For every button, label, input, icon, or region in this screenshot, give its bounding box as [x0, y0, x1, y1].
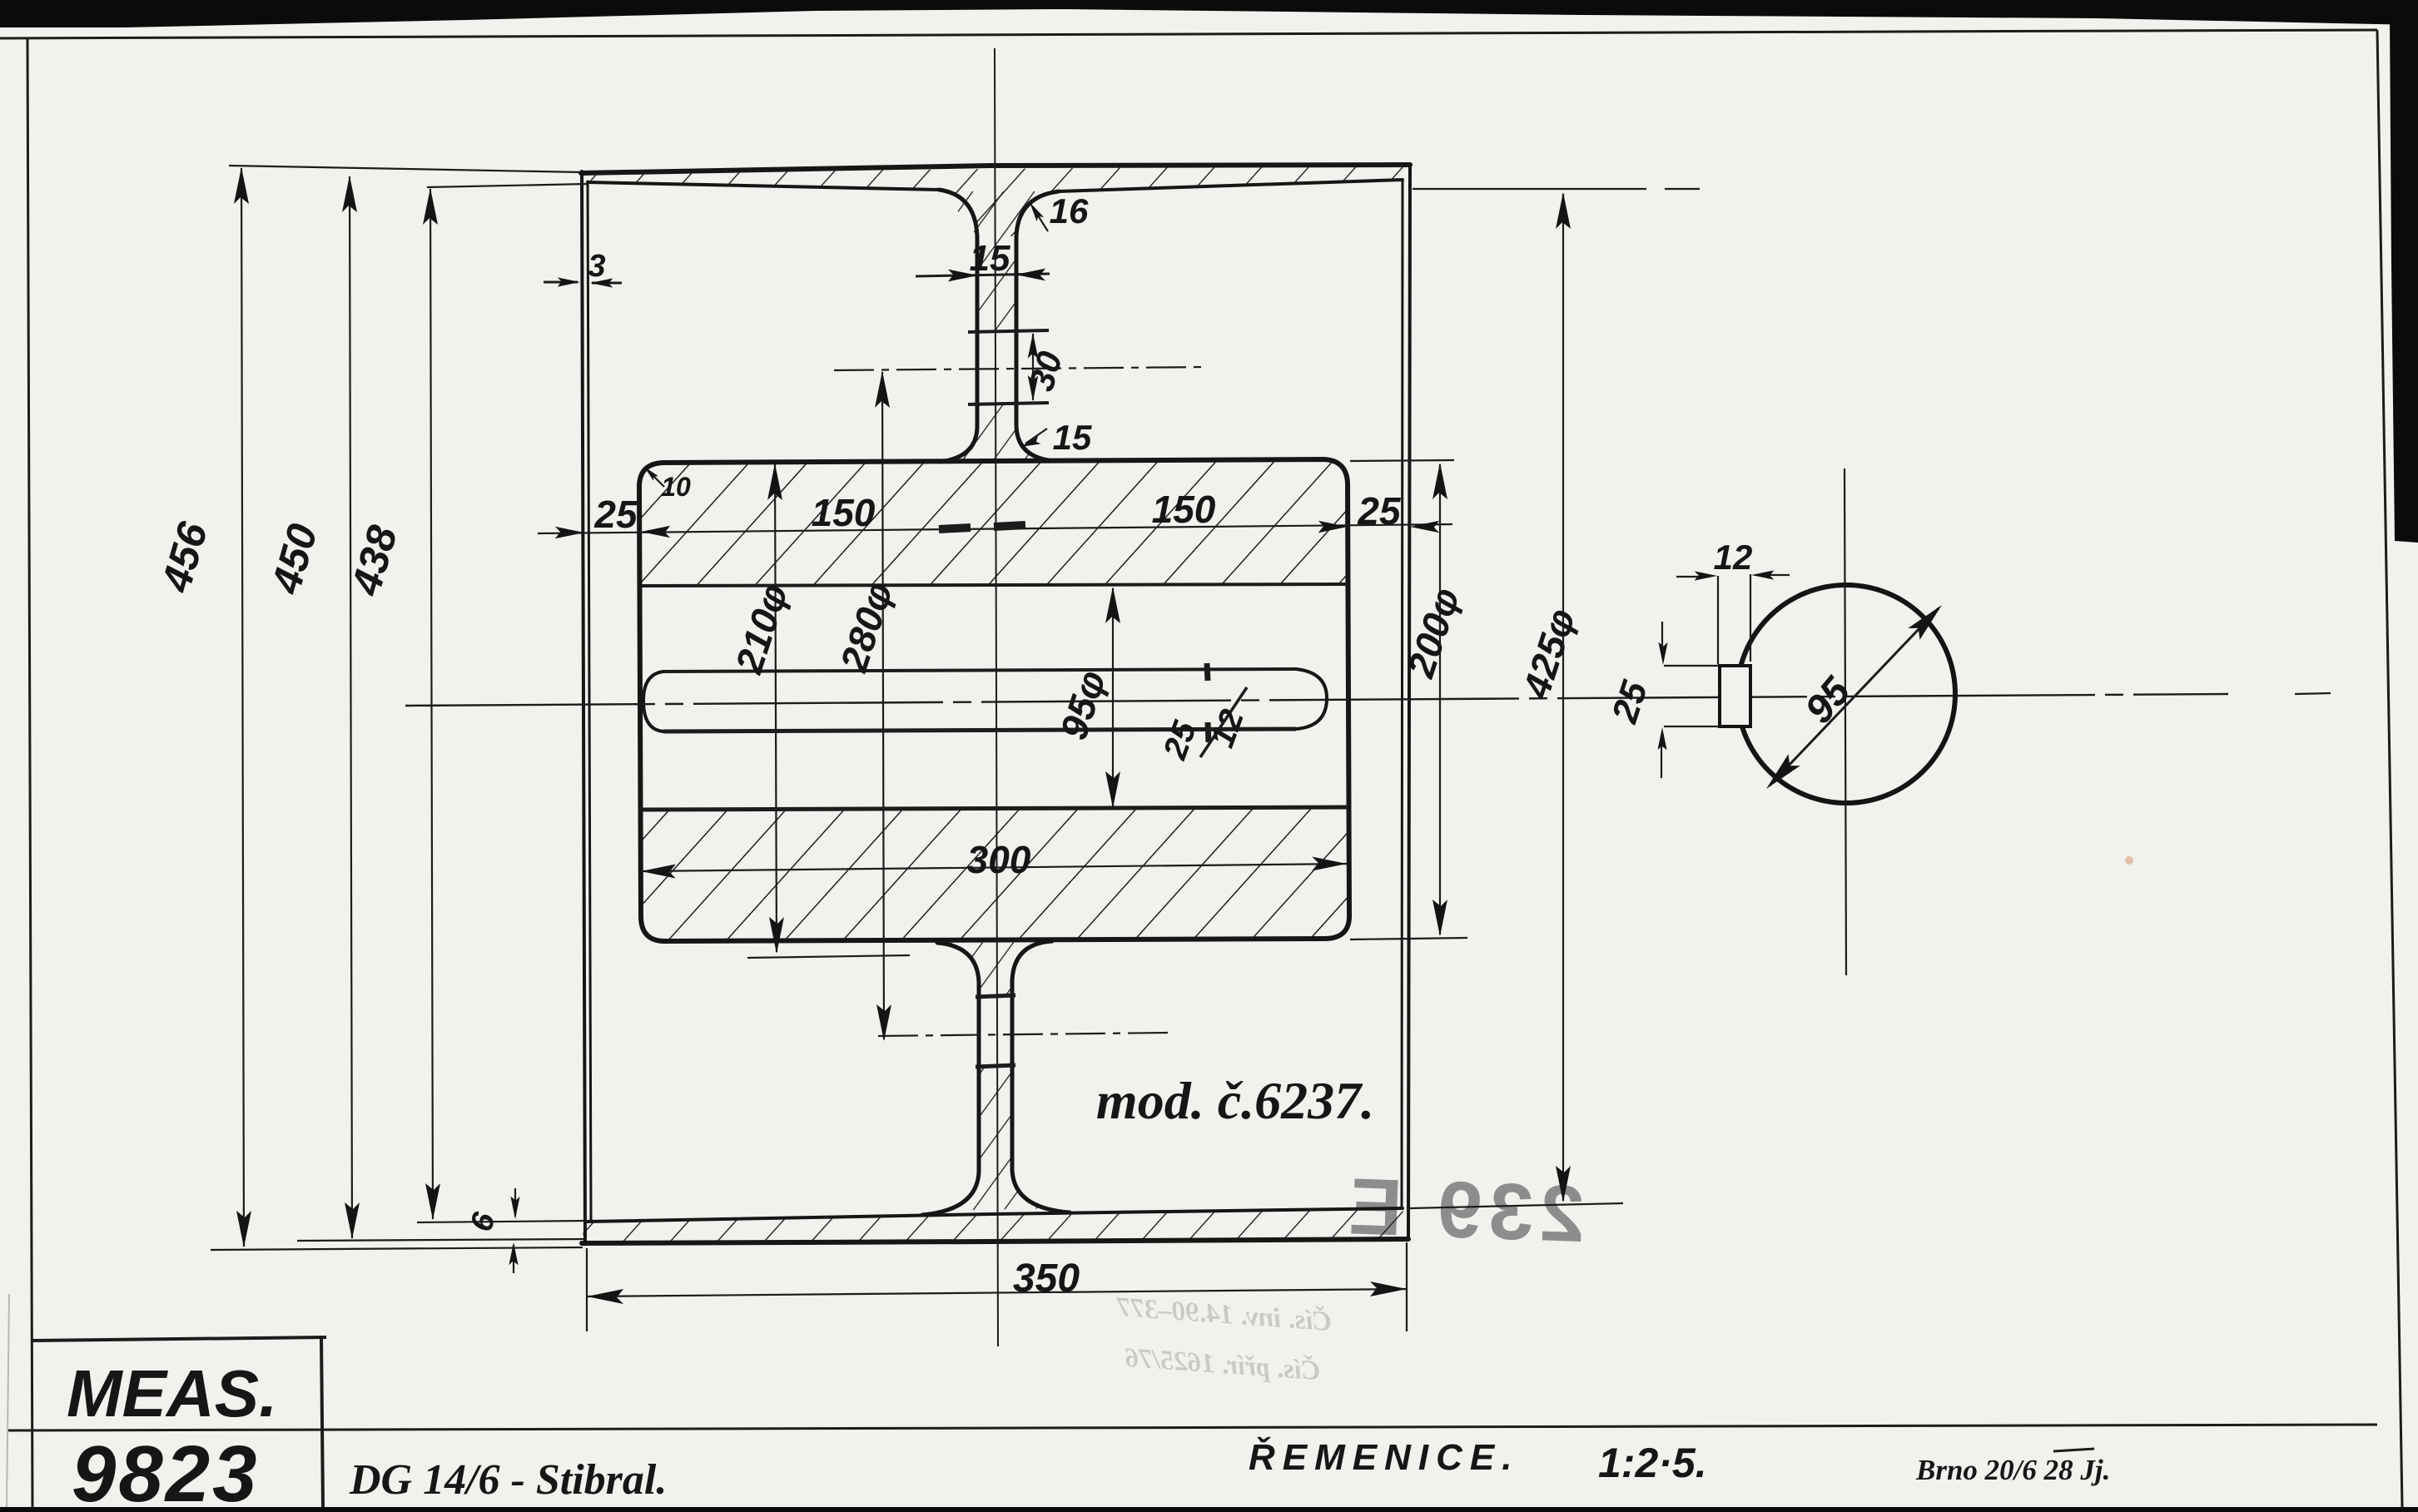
svg-text:DG 14/6 - Stibral.: DG 14/6 - Stibral.	[349, 1456, 667, 1504]
svg-text:15: 15	[970, 238, 1010, 279]
dim line 350	[587, 1289, 1407, 1296]
key dim 25 extension lines	[1664, 665, 1718, 667]
label 10 hub corner with leader	[648, 470, 664, 487]
280 dia extension dash-dot top	[834, 367, 1206, 370]
shaft diameter 95 diagonal line	[1770, 608, 1939, 786]
shaft circle	[1737, 585, 1955, 803]
pulley top web lower hatched section	[937, 404, 1054, 463]
web width dim arrows	[948, 270, 978, 282]
key dim 12 arrows	[1676, 576, 1703, 578]
svg-text:10: 10	[661, 472, 691, 502]
svg-text:25: 25	[1357, 489, 1402, 533]
bottom web left outline with fillets	[922, 943, 979, 1215]
rim bottom outer edge	[582, 1239, 1408, 1243]
top web left outline with fillets	[939, 190, 977, 462]
shaft vertical centerline	[1845, 468, 1846, 975]
keyway slot top line	[663, 669, 1296, 672]
bore bottom line	[640, 807, 1348, 810]
bottom web joint tick lower	[976, 1065, 1015, 1067]
chain dim arrow at rim right	[1410, 521, 1439, 533]
top web right outline with fillets	[1016, 191, 1059, 461]
hub upper hatched band	[639, 459, 1348, 586]
rim corner extension right for 425	[1413, 188, 1646, 190]
label 16 rim fillet with leader	[1032, 206, 1048, 231]
top web joint tick upper	[968, 330, 1049, 332]
full width horizontal rule	[8, 1425, 2377, 1430]
svg-text:ŘEMENICE.: ŘEMENICE.	[1249, 1436, 1519, 1478]
label 15 hub fillet with leader	[1025, 429, 1047, 444]
rim left side inner line	[588, 181, 591, 1222]
key dim 25 arrows	[1661, 622, 1663, 652]
extension line left for 350	[586, 1248, 588, 1331]
dim 3 left arrow	[544, 281, 578, 284]
extension line bottom for 456	[211, 1247, 583, 1250]
dim 30 line with arrows	[1032, 334, 1034, 400]
svg-text:MEAS.: MEAS.	[67, 1356, 277, 1430]
bottom web upper hatched section	[937, 942, 1050, 996]
vertical centerline of main view	[995, 48, 998, 1346]
horizontal centerline extra dash right	[2295, 693, 2331, 694]
chain dim arrow at rim left	[555, 527, 584, 538]
extension line bottom for 438 and 6 dim	[417, 1221, 588, 1222]
keyway dim tick lower	[1208, 722, 1209, 742]
faded mirrored inventory handwriting line 1	[1115, 1291, 1333, 1337]
extension line bottom for 450	[297, 1239, 586, 1241]
bottom web right outline with fillets	[1012, 941, 1070, 1212]
title block right line	[321, 1337, 323, 1507]
svg-text:Brno 20/6 28 Jj.: Brno 20/6 28 Jj.	[1915, 1454, 2110, 1486]
paper fold edge bottom left	[7, 1294, 9, 1507]
dim line 280 dia	[882, 372, 884, 1039]
svg-text:16: 16	[1050, 191, 1089, 231]
horizontal centerline across sheet	[405, 694, 2228, 706]
chain dim arrow at hub right	[1318, 521, 1348, 533]
hub lower hatched band	[640, 807, 1349, 941]
key dim 12 extension lines	[1717, 576, 1719, 664]
svg-text:3: 3	[588, 249, 605, 284]
rim top band inner edge right	[1059, 180, 1403, 191]
overline above date 28	[2053, 1449, 2094, 1451]
210 dia bottom extension line	[747, 955, 910, 958]
dim line 95 dia	[1112, 588, 1114, 806]
pulley rim bottom band hatched section	[582, 1208, 1408, 1243]
extension line top for 456 and 450	[229, 166, 583, 172]
top web hatched upper section	[942, 191, 1054, 330]
sheet border left line	[27, 38, 32, 1507]
faint orange speck	[2125, 856, 2133, 865]
title block top line	[32, 1337, 326, 1341]
chain dim centre tick right	[994, 525, 1025, 527]
keyway slot left cap	[643, 672, 663, 731]
keyway slot right cap	[1296, 669, 1327, 729]
bottom web lower hatched section	[937, 1065, 1052, 1211]
web width dim 15 line	[916, 274, 1050, 276]
svg-text:12: 12	[1714, 538, 1753, 577]
svg-text:25: 25	[593, 493, 638, 536]
dim line 425 dia	[1562, 194, 1564, 1201]
hub bottom edge extension right	[1350, 938, 1467, 939]
rim top band inner edge left	[588, 182, 939, 190]
dim 6 lower arrow	[513, 1245, 514, 1273]
rim bottom band inner edge	[588, 1208, 1403, 1222]
dim 6 upper arrow	[514, 1188, 516, 1217]
svg-text:350: 350	[1013, 1257, 1080, 1301]
scan black strip right edge	[2390, 13, 2418, 543]
dim line 438	[430, 189, 433, 1219]
bottom web joint tick upper	[976, 995, 1015, 997]
svg-text:300: 300	[967, 838, 1031, 881]
extension line top for 438	[427, 184, 588, 187]
scan black strip bottom edge	[0, 1507, 2418, 1512]
sheet border top line	[0, 30, 2377, 38]
faded mirrored inventory handwriting line 2	[1124, 1341, 1321, 1386]
dim line 200 dia	[1439, 464, 1441, 934]
hub top edge extension right	[1350, 460, 1454, 461]
faded mirrored stamp 239 E	[1341, 1162, 1586, 1259]
rim right side outer line	[1408, 165, 1410, 1239]
280 dia extension dash-dot bottom	[878, 1033, 1168, 1036]
keyway dim slash	[1200, 687, 1247, 757]
chain dim line 25-150-150-25	[538, 524, 1452, 533]
bore top line	[640, 584, 1348, 586]
svg-text:15: 15	[1053, 418, 1092, 457]
dim line 210 dia	[775, 464, 777, 952]
pulley rim top band hatched section	[582, 165, 1410, 236]
dim line 456	[241, 168, 244, 1247]
svg-text:9823: 9823	[72, 1430, 260, 1512]
dim line 450	[350, 176, 352, 1238]
svg-text:150: 150	[812, 491, 876, 534]
extension line bottom for 425	[1410, 1203, 1623, 1208]
dim 3 right arrow	[592, 282, 622, 285]
extension line right for 350	[1406, 1242, 1408, 1331]
top web joint tick lower	[968, 403, 1049, 404]
scan black strip top edge	[0, 0, 2418, 27]
svg-text:1:2·5.: 1:2·5.	[1598, 1440, 1707, 1486]
rim left side outer line	[582, 171, 585, 1242]
rim crown top edge	[581, 165, 1410, 173]
chain dim arrow at hub left	[641, 526, 670, 538]
chain dim centre tick left	[939, 528, 971, 529]
svg-text:150: 150	[1152, 488, 1216, 531]
keyway slot bottom line	[663, 729, 1296, 731]
sheet border right line	[2377, 30, 2402, 1507]
svg-text:mod. č.6237.: mod. č.6237.	[1096, 1071, 1374, 1130]
keyway dim tick upper	[1207, 663, 1208, 681]
rim right side inner line	[1402, 180, 1403, 1208]
shaft key rectangle	[1720, 666, 1750, 726]
hub outline rounded rectangle	[639, 459, 1349, 941]
dim line 300	[641, 864, 1347, 871]
